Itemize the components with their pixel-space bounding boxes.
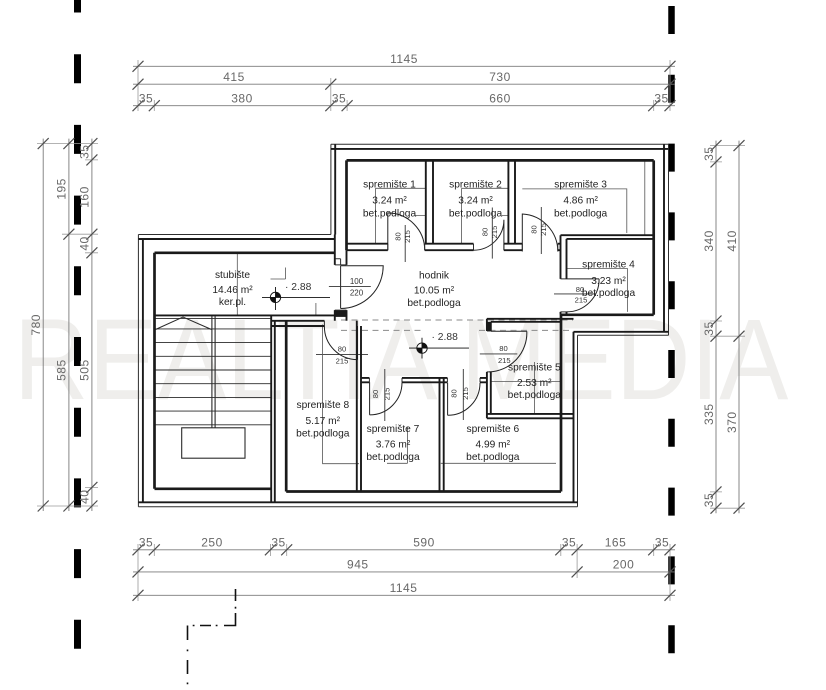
svg-text:· 2.88: · 2.88 — [285, 282, 312, 293]
svg-text:3.24 m²: 3.24 m² — [458, 195, 493, 206]
svg-text:80: 80 — [371, 390, 380, 398]
level marker hodnik 2.88 — [409, 338, 469, 359]
svg-text:spremište 2: spremište 2 — [449, 180, 502, 191]
svg-text:215: 215 — [539, 223, 548, 236]
svg-text:100: 100 — [350, 277, 364, 286]
svg-text:35: 35 — [702, 147, 716, 161]
svg-text:160: 160 — [78, 186, 92, 208]
svg-text:bet.podloga: bet.podloga — [366, 452, 420, 463]
building wall medium lines — [138, 144, 668, 502]
svg-text:35: 35 — [654, 92, 668, 106]
door room4 (80/215) — [567, 279, 600, 312]
svg-text:215: 215 — [461, 387, 470, 400]
svg-text:3.24 m²: 3.24 m² — [372, 195, 407, 206]
svg-text:80: 80 — [338, 345, 346, 354]
door stubiste-hodnik (100/220) — [341, 266, 384, 309]
svg-text:40: 40 — [78, 236, 92, 250]
svg-text:1145: 1145 — [390, 581, 418, 595]
svg-text:215: 215 — [490, 226, 499, 239]
svg-text:80: 80 — [481, 228, 490, 236]
svg-text:35: 35 — [562, 536, 576, 550]
svg-text:spremište 7: spremište 7 — [367, 424, 420, 435]
svg-text:35: 35 — [702, 321, 716, 335]
svg-text:spremište 8: spremište 8 — [296, 400, 349, 411]
door room2 (80/215) — [474, 220, 504, 250]
svg-text:hodnik: hodnik — [419, 271, 450, 282]
svg-text:35: 35 — [271, 536, 285, 550]
svg-text:215: 215 — [383, 388, 392, 401]
svg-text:3.76 m²: 3.76 m² — [376, 439, 411, 450]
svg-text:bet.podloga: bet.podloga — [449, 208, 503, 219]
svg-text:340: 340 — [702, 230, 716, 252]
witness stubs — [37, 60, 745, 601]
svg-text:215: 215 — [403, 230, 412, 243]
stairs mid divider — [212, 315, 215, 427]
svg-text:195: 195 — [55, 178, 69, 200]
svg-text:35: 35 — [702, 493, 716, 507]
hodnik dashed ceiling lines — [341, 319, 573, 321]
svg-text:· 2.88: · 2.88 — [432, 332, 459, 343]
door room8 (80/215) — [324, 326, 357, 360]
svg-text:380: 380 — [231, 92, 253, 106]
svg-text:415: 415 — [223, 70, 245, 84]
jamb block stubiste door — [335, 310, 347, 317]
svg-text:bet.podloga: bet.podloga — [554, 208, 608, 219]
stairs treads — [155, 318, 272, 424]
dimension lines — [43, 66, 739, 595]
property line left — [74, 0, 81, 690]
svg-text:200: 200 — [613, 558, 635, 572]
svg-text:bet.podloga: bet.podloga — [296, 429, 350, 440]
svg-text:220: 220 — [350, 288, 364, 297]
svg-text:505: 505 — [78, 359, 92, 381]
svg-text:410: 410 — [725, 230, 739, 252]
svg-text:bet.podloga: bet.podloga — [582, 288, 636, 299]
svg-text:spremište 3: spremište 3 — [554, 180, 607, 191]
svg-text:590: 590 — [413, 536, 435, 550]
door room5 (80/215) — [489, 331, 527, 372]
svg-text:3.23 m²: 3.23 m² — [591, 276, 626, 287]
svg-text:4.99 m²: 4.99 m² — [476, 439, 511, 450]
svg-text:bet.podloga: bet.podloga — [466, 452, 520, 463]
svg-text:spremište 1: spremište 1 — [363, 180, 416, 191]
room area polygon lines — [237, 161, 645, 464]
svg-text:2.53 m²: 2.53 m² — [517, 378, 552, 389]
svg-text:35: 35 — [655, 536, 669, 550]
svg-text:spremište 5: spremište 5 — [508, 362, 561, 373]
stairs direction chevron — [156, 317, 212, 330]
svg-text:250: 250 — [201, 536, 223, 550]
door room3 (80/215) — [522, 214, 558, 252]
svg-text:4.86 m²: 4.86 m² — [563, 195, 598, 206]
svg-text:215: 215 — [336, 356, 349, 365]
svg-text:bet.podloga: bet.podloga — [407, 298, 461, 309]
svg-text:335: 335 — [702, 403, 716, 425]
building wall heavy inner lines — [155, 160, 654, 491]
svg-text:spremište 4: spremište 4 — [582, 260, 635, 271]
hidden dash-dot line bottom left — [188, 589, 236, 684]
svg-text:1145: 1145 — [390, 52, 418, 66]
svg-text:14.46 m²: 14.46 m² — [212, 285, 253, 296]
svg-text:80: 80 — [529, 225, 538, 233]
svg-text:730: 730 — [489, 70, 511, 84]
property line right — [668, 6, 675, 690]
tick slashes — [38, 61, 745, 601]
building wall thin facade lines — [138, 144, 668, 506]
svg-text:40: 40 — [78, 490, 92, 504]
svg-text:bet.podloga: bet.podloga — [363, 208, 417, 219]
svg-text:10.05 m²: 10.05 m² — [414, 286, 455, 297]
svg-text:660: 660 — [489, 92, 511, 106]
stair void rectangle — [182, 428, 245, 458]
svg-text:35: 35 — [139, 92, 153, 106]
svg-text:stubište: stubište — [215, 270, 250, 281]
svg-text:585: 585 — [55, 359, 69, 381]
door room7 (80/215) — [370, 382, 402, 415]
svg-text:ker.pl.: ker.pl. — [219, 297, 246, 308]
svg-text:35: 35 — [332, 92, 346, 106]
svg-text:80: 80 — [394, 232, 403, 240]
svg-text:80: 80 — [450, 389, 459, 397]
svg-text:80: 80 — [499, 344, 507, 353]
level marker stubiste 2.88 — [262, 287, 330, 310]
svg-text:spremište 6: spremište 6 — [466, 424, 519, 435]
svg-text:5.17 m²: 5.17 m² — [306, 416, 341, 427]
svg-text:165: 165 — [605, 536, 627, 550]
svg-text:35: 35 — [78, 145, 92, 159]
svg-text:35: 35 — [139, 536, 153, 550]
svg-text:945: 945 — [347, 558, 369, 572]
svg-text:bet.podloga: bet.podloga — [508, 390, 562, 401]
svg-text:370: 370 — [725, 411, 739, 433]
door room6 (80/215) — [448, 383, 480, 416]
door room1 (80/215) — [388, 213, 425, 250]
svg-text:780: 780 — [29, 314, 43, 336]
